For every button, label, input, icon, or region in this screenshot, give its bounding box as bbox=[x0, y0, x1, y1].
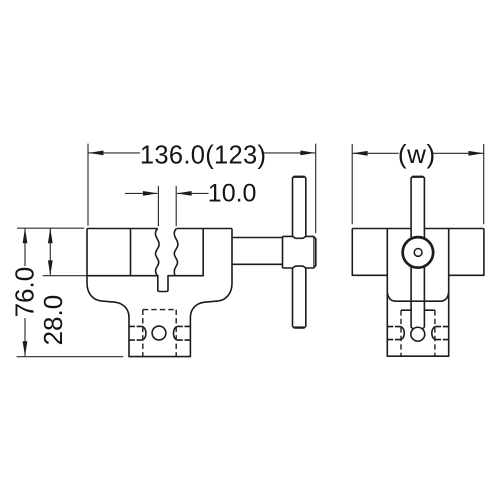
dim 76.0: dimension line bbox=[24, 228, 26, 356]
dim 10.0: extension lines bbox=[158, 186, 176, 226]
svg-text:(w): (w) bbox=[398, 139, 436, 169]
right view: inner arch bbox=[387, 292, 448, 301]
svg-text:136.0(123): 136.0(123) bbox=[140, 142, 266, 170]
right view: groove notch right bbox=[435, 327, 448, 340]
left view: T-handle rod upper bbox=[293, 176, 306, 236]
right view: block top edge bbox=[352, 228, 484, 230]
arrow 136 left bbox=[89, 151, 104, 156]
arrow 10 left bbox=[143, 191, 158, 196]
left view: groove notch left bbox=[129, 326, 143, 340]
left view: collar (knob side) bbox=[283, 236, 316, 268]
right view: block right section bbox=[449, 229, 484, 276]
dim 28.0: dimension line bbox=[49, 228, 51, 275]
arrow 136 right bbox=[300, 151, 315, 156]
left view: screw shaft lines bbox=[232, 238, 283, 265]
left view: groove notch right bbox=[177, 326, 191, 340]
arrow w left bbox=[353, 151, 368, 156]
extension line bottom (y=356.7) bbox=[17, 356, 124, 358]
dim (w): extension lines bbox=[352, 144, 484, 224]
arrow 28 top bbox=[48, 228, 53, 243]
dim 10.0: dimension lines bbox=[125, 192, 209, 194]
right view: stem shoulder lines bbox=[401, 309, 435, 311]
right view: screw rod lower bbox=[411, 267, 424, 326]
right view: knob center circle bbox=[414, 249, 422, 257]
right view: screw ball end circle bbox=[411, 327, 425, 341]
left view: T-handle rod lower bbox=[293, 268, 306, 328]
left view: stem hidden verticals bbox=[143, 310, 176, 357]
dim 136.0(123): extension lines bbox=[88, 144, 316, 234]
extension line top (y=228.2) bbox=[17, 227, 84, 229]
left view: hole circle bbox=[152, 326, 166, 340]
arrowheads bbox=[23, 151, 484, 357]
svg-text:28.0: 28.0 bbox=[38, 295, 68, 346]
arrow 76 bottom bbox=[23, 341, 28, 356]
right view: stem hidden verticals bbox=[401, 310, 435, 356]
dimensions bbox=[17, 144, 484, 357]
right view: block left section bbox=[352, 229, 387, 276]
arrow w right bbox=[468, 151, 483, 156]
dim (w): dimension line bbox=[353, 152, 484, 154]
right view: groove notch left bbox=[388, 327, 401, 340]
left view: stem hidden top bbox=[143, 309, 176, 311]
left view: left wavy break line bbox=[155, 229, 159, 276]
left view: body outline bbox=[87, 229, 232, 357]
dim 136.0(123): dimension line bbox=[89, 152, 316, 154]
extension line mid (y=275.7) bbox=[43, 275, 88, 277]
right view: screw rod upper bbox=[411, 176, 424, 237]
arrow 76 top bbox=[23, 228, 28, 243]
svg-text:76.0: 76.0 bbox=[10, 267, 40, 318]
left view: inner vertical jaw edge bbox=[130, 229, 132, 276]
right view: knob outer ring bbox=[403, 237, 434, 268]
left view: right wavy break line bbox=[174, 229, 178, 276]
right view: middle body outer verticals bbox=[387, 229, 448, 357]
arrow 10 right bbox=[177, 191, 192, 196]
left view: block bottom edge with tab bbox=[87, 229, 203, 292]
hidden (dashed) lines bbox=[143, 310, 435, 357]
svg-text:10.0: 10.0 bbox=[208, 179, 257, 207]
arrow 28 bottom bbox=[48, 260, 53, 275]
